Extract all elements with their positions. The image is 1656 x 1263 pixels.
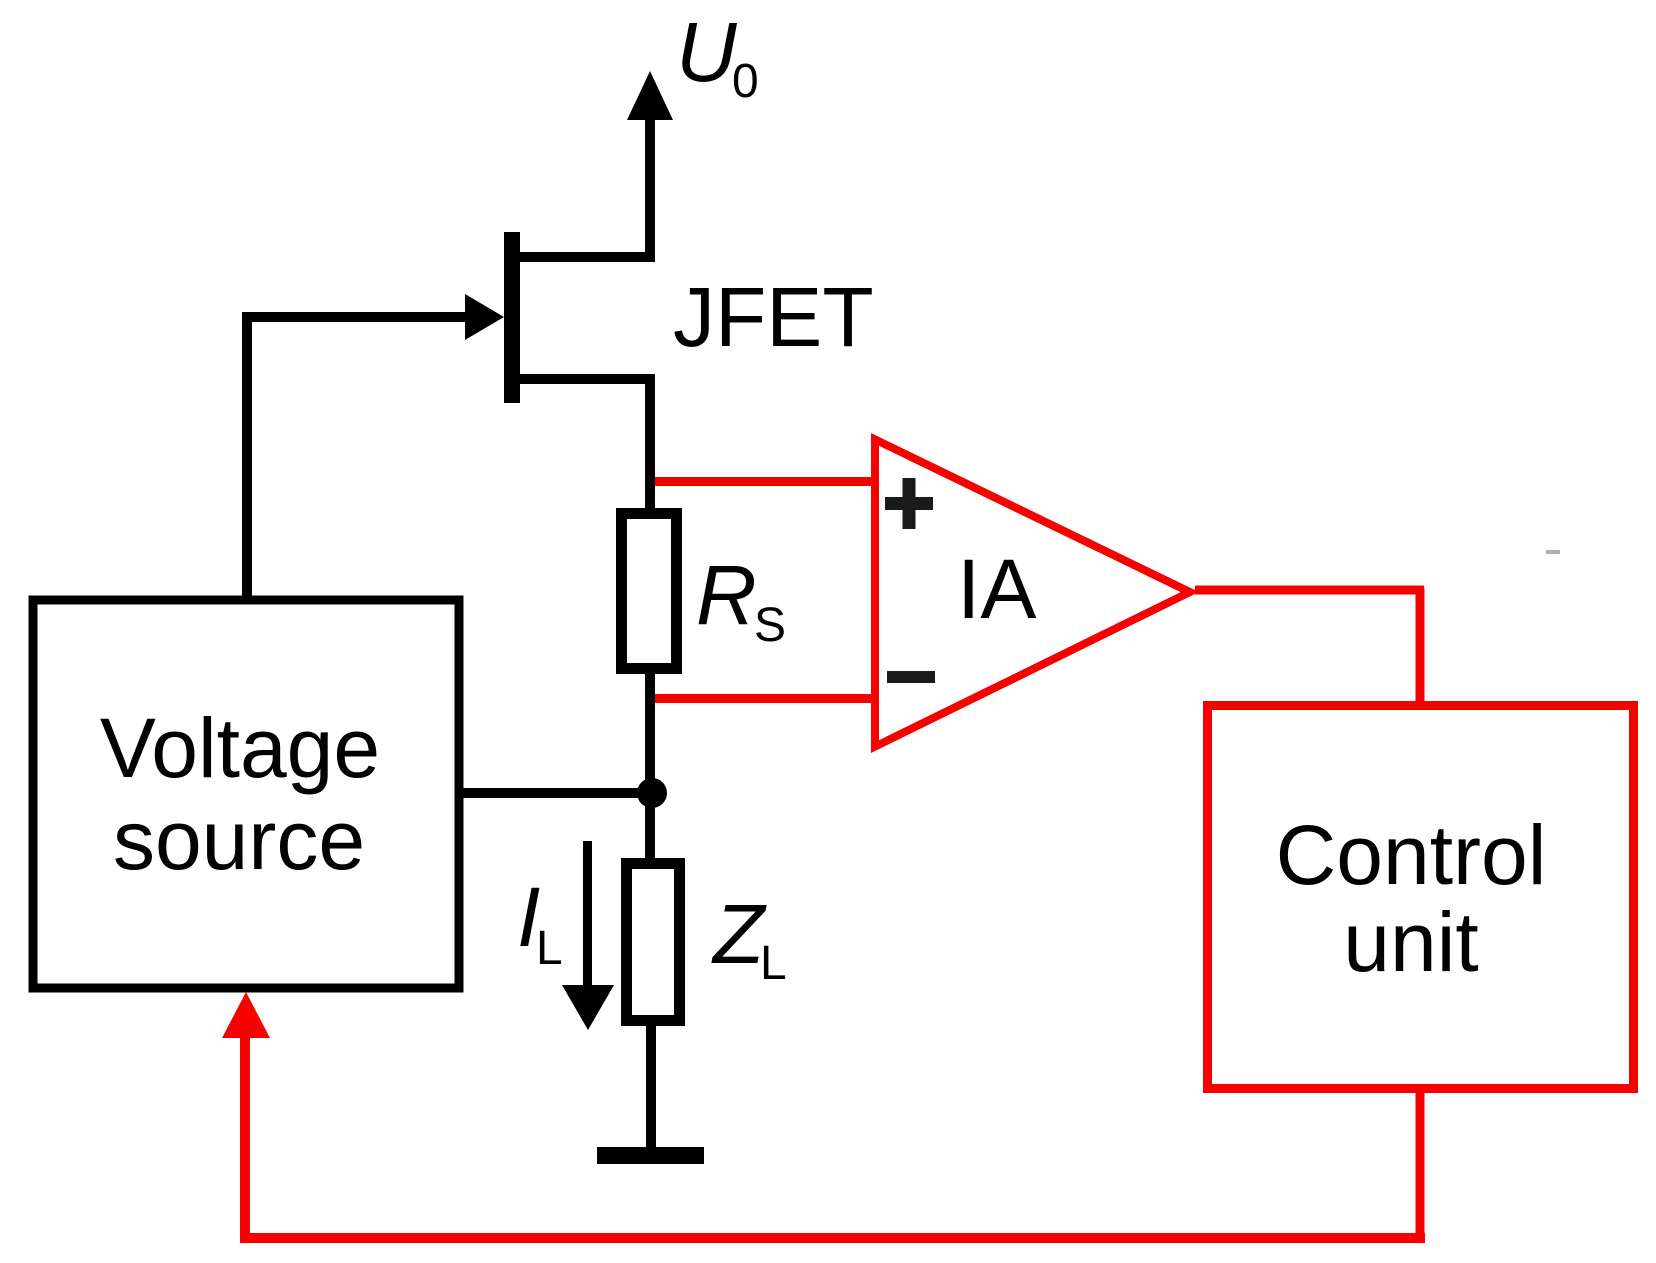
svg-text:JFET: JFET bbox=[673, 270, 874, 364]
svg-text:R: R bbox=[696, 548, 757, 642]
svg-text:Z: Z bbox=[711, 887, 767, 981]
svg-text:S: S bbox=[754, 599, 786, 652]
svg-text:L: L bbox=[760, 937, 787, 990]
svg-text:unit: unit bbox=[1343, 895, 1478, 989]
svg-text:L: L bbox=[536, 922, 563, 975]
svg-text:0: 0 bbox=[732, 55, 759, 108]
svg-text:U: U bbox=[676, 5, 738, 99]
svg-text:source: source bbox=[113, 793, 365, 887]
svg-text:IA: IA bbox=[957, 542, 1036, 636]
svg-text:Voltage: Voltage bbox=[100, 701, 380, 795]
svg-text:Control: Control bbox=[1276, 808, 1547, 902]
